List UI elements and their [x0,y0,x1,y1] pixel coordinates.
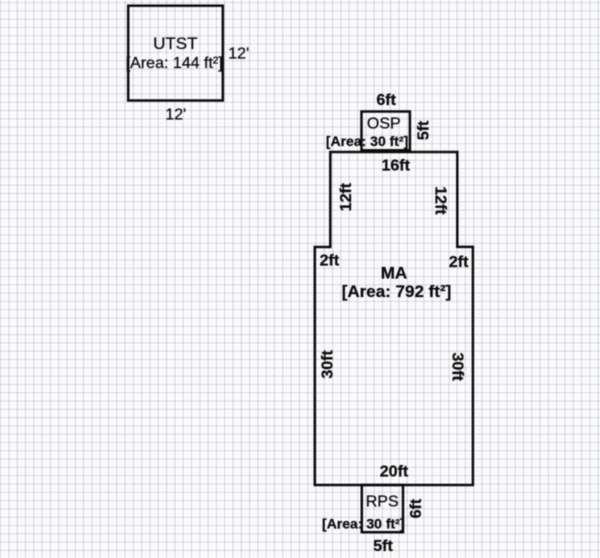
svg-text:RPS: RPS [366,493,399,510]
svg-text:12': 12' [165,107,186,124]
svg-text:[Area: 792 ft²]: [Area: 792 ft²] [342,282,452,301]
svg-text:30ft: 30ft [320,350,337,379]
svg-text:OSP: OSP [367,116,401,133]
svg-text:2ft: 2ft [449,254,469,271]
svg-text:UTST: UTST [153,34,197,53]
svg-text:MA: MA [381,264,407,283]
svg-text:5ft: 5ft [416,120,433,140]
svg-text:5ft: 5ft [373,538,393,555]
svg-text:12ft: 12ft [431,186,448,215]
svg-text:[Area: 144 ft²]: [Area: 144 ft²] [126,55,223,72]
svg-text:12ft: 12ft [338,182,355,211]
svg-text:6ft: 6ft [408,498,425,518]
svg-text:30ft: 30ft [448,352,465,381]
svg-text:12': 12' [228,45,249,62]
svg-text:16ft: 16ft [381,158,410,175]
svg-text:6ft: 6ft [376,92,396,109]
svg-text:20ft: 20ft [380,464,409,481]
svg-text:2ft: 2ft [320,253,340,270]
svg-text:[Area: 30 ft²]: [Area: 30 ft²] [326,133,408,149]
svg-text:[Area: 30 ft²]: [Area: 30 ft²] [322,516,404,532]
